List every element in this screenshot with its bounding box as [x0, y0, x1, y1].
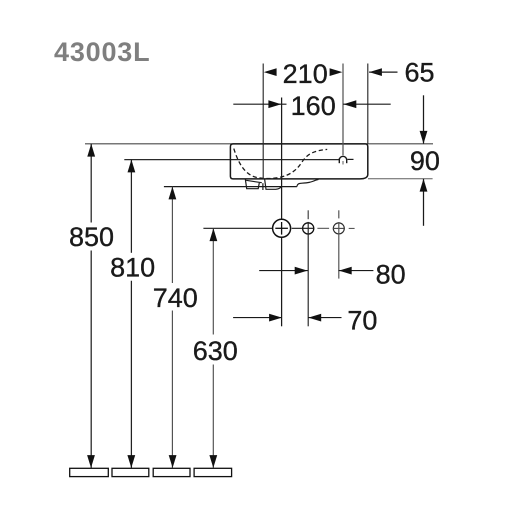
svg-text:810: 810 [110, 252, 155, 282]
dim 810 vertical [130, 160, 132, 253]
floor slab 1 [70, 468, 109, 476]
dim 90 [423, 95, 425, 143]
dim 850 vertical [90, 144, 92, 223]
svg-text:740: 740 [153, 283, 198, 313]
underside curve [297, 179, 319, 186]
dim 630 vertical [212, 228, 214, 334]
basin outline (side view) [230, 144, 367, 179]
svg-text:630: 630 [193, 336, 238, 366]
node: right edge extension x=367.8 [367, 64, 369, 144]
drain centre dash [262, 183, 264, 190]
fixing hole middle circle [303, 223, 314, 234]
svg-text:80: 80 [376, 260, 406, 290]
svg-text:70: 70 [347, 306, 377, 336]
drain right tab [265, 179, 282, 189]
wire: top extension line y=143.2 (850 dim + 90 dim reference) [85, 143, 433, 145]
wire: 630 extension line y=228.3 [203, 227, 272, 229]
wire: 810 extension line to tap hole y=159.6 [124, 159, 339, 161]
svg-text:210: 210 [283, 59, 328, 89]
drain internal slope [246, 180, 262, 182]
fixing hole big circle [273, 219, 291, 237]
floor slab 4 [194, 468, 232, 476]
dim 65 [369, 68, 382, 76]
dim 740 vertical [171, 187, 173, 283]
node: 210 left extension line x=263.2 [262, 64, 264, 180]
svg-text:43003L: 43003L [54, 37, 150, 67]
floor slab 2 [112, 468, 149, 476]
dim 80 [259, 270, 308, 272]
dim 160 [233, 103, 286, 105]
svg-text:850: 850 [69, 222, 114, 252]
fixing hole right circle [333, 223, 344, 234]
svg-text:160: 160 [291, 91, 336, 121]
dim 210 [264, 68, 277, 76]
node: fixing hole centre line x=281.6 [281, 98, 283, 219]
dim 70 [233, 317, 282, 319]
svg-text:90: 90 [410, 146, 440, 176]
basin bowl hidden contour (dashed) [234, 149, 327, 179]
drain left tab [245, 179, 259, 189]
wire: 740 extension line y=186.6 [164, 186, 297, 188]
svg-text:65: 65 [404, 57, 434, 87]
wire: 90 bottom extension line y=178.3 [368, 178, 433, 180]
tap hole symbol [339, 156, 346, 160]
floor slab 3 [153, 468, 190, 476]
node: tap hole centre line x=343 [342, 64, 344, 156]
